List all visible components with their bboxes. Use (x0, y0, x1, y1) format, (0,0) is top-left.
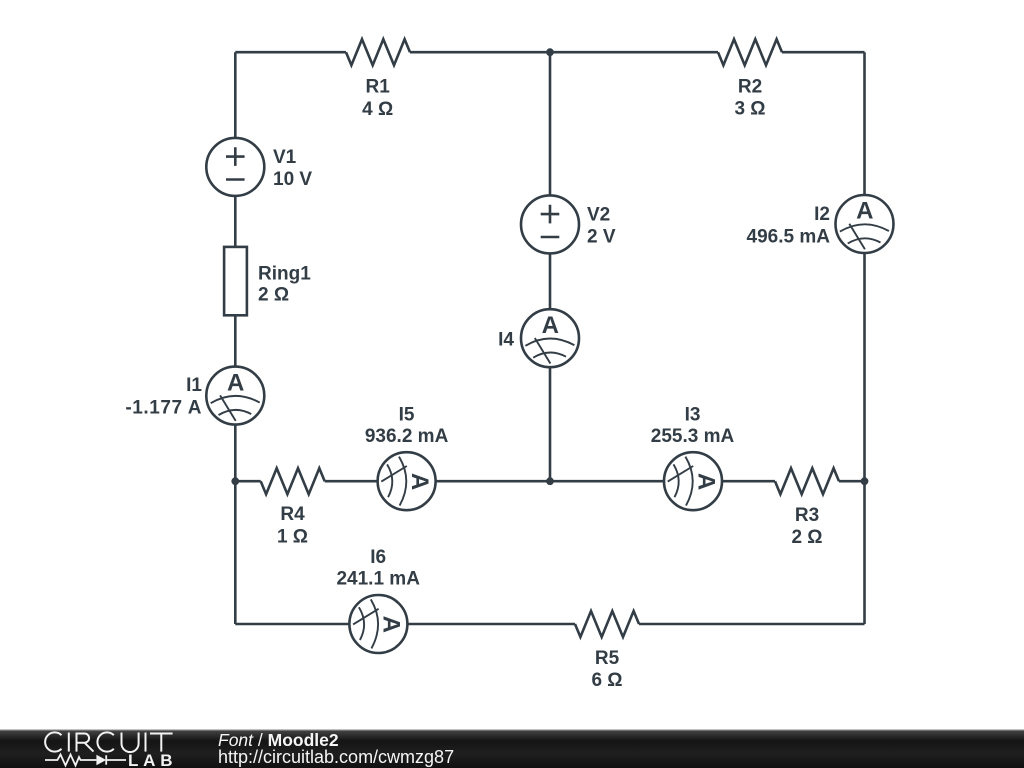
svg-text:I6: I6 (370, 547, 386, 568)
svg-text:496.5 mA: 496.5 mA (747, 227, 831, 248)
svg-text:I2: I2 (814, 204, 830, 225)
svg-text:R3: R3 (795, 505, 819, 526)
svg-text:-1.177 A: -1.177 A (125, 398, 202, 419)
svg-text:R1: R1 (366, 77, 391, 98)
svg-text:1 Ω: 1 Ω (277, 527, 308, 548)
svg-text:I5: I5 (399, 404, 415, 425)
svg-text:6 Ω: 6 Ω (591, 670, 622, 691)
svg-text:http://circuitlab.com/cwmzg87: http://circuitlab.com/cwmzg87 (218, 747, 454, 767)
svg-text:V1: V1 (273, 147, 297, 168)
svg-text:2 V: 2 V (587, 226, 616, 247)
svg-text:241.1 mA: 241.1 mA (336, 569, 420, 590)
svg-text:4 Ω: 4 Ω (362, 99, 393, 120)
svg-text:255.3 mA: 255.3 mA (651, 426, 735, 447)
svg-text:936.2 mA: 936.2 mA (365, 426, 449, 447)
svg-text:I4: I4 (498, 330, 514, 351)
svg-text:I3: I3 (685, 404, 701, 425)
svg-text:3 Ω: 3 Ω (734, 99, 765, 120)
svg-text:10 V: 10 V (273, 169, 312, 190)
svg-text:Ring1: Ring1 (258, 264, 311, 285)
svg-text:R4: R4 (280, 504, 305, 525)
svg-text:I1: I1 (186, 375, 202, 396)
svg-text:R5: R5 (595, 648, 620, 669)
svg-text:R2: R2 (738, 77, 762, 98)
svg-text:2 Ω: 2 Ω (791, 527, 822, 548)
svg-text:V2: V2 (587, 204, 610, 225)
svg-text:2 Ω: 2 Ω (258, 285, 289, 306)
svg-text:LAB: LAB (128, 751, 177, 768)
